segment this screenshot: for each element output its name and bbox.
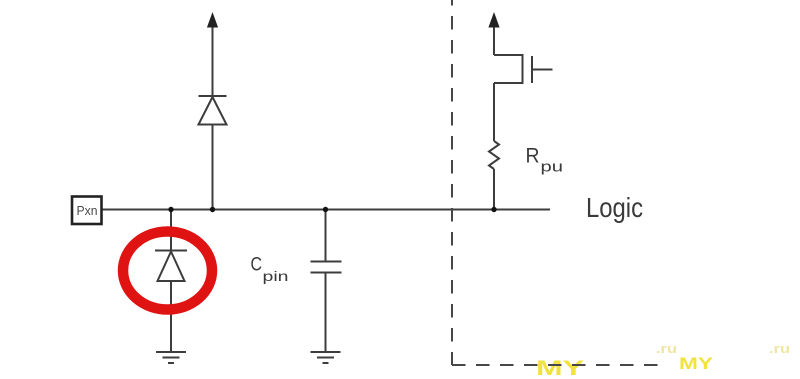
diode D2 cathode bar	[155, 250, 187, 252]
node junction dot C	[323, 207, 328, 212]
diode D1 triangle	[199, 97, 227, 125]
node junction dot A	[168, 207, 173, 212]
resistor Rpu zigzag	[489, 141, 499, 169]
pin box Pxn	[72, 197, 102, 225]
svg-text:pu: pu	[541, 160, 564, 176]
wire capacitor branch upper	[325, 210, 327, 262]
transistor Q1 gate bar	[531, 56, 533, 83]
wire clamp branch upper	[170, 210, 172, 251]
wire diode D1 to node	[212, 125, 214, 210]
transistor Q1 PMOS body path	[494, 55, 523, 83]
label Cpin	[251, 255, 289, 285]
red highlight ellipse	[123, 232, 212, 310]
ground GND1	[156, 352, 186, 363]
wire VCC branch left vertical	[212, 24, 214, 96]
svg-text:pin: pin	[263, 269, 289, 284]
wire clamp branch lower	[170, 281, 172, 352]
wire pull-up branch top vertical	[493, 24, 495, 55]
svg-text:Pxn: Pxn	[77, 203, 98, 218]
diode D1 cathode bar	[199, 95, 227, 97]
svg-text:MY: MY	[536, 357, 584, 379]
diode D2 triangle	[158, 252, 185, 282]
transistor Q1 gate lead	[532, 69, 553, 71]
svg-text:MY: MY	[679, 354, 714, 373]
node junction dot B	[210, 207, 215, 212]
wire resistor to node	[493, 169, 495, 210]
label Rpu	[526, 145, 564, 176]
svg-text:Logic: Logic	[586, 192, 643, 223]
svg-text:C: C	[251, 255, 263, 276]
dashed boundary horizontal	[452, 364, 661, 366]
wire main horizontal net (pin to logic)	[102, 209, 550, 211]
ground GND2	[311, 352, 341, 363]
wire transistor to resistor	[493, 83, 495, 141]
svg-text:R: R	[526, 145, 540, 168]
dashed boundary vertical	[451, 0, 453, 365]
svg-text:.ru: .ru	[656, 341, 677, 356]
wire capacitor branch lower	[325, 273, 327, 353]
arrow VCC right	[488, 12, 499, 28]
arrow VCC left	[207, 12, 218, 28]
svg-text:.ru: .ru	[769, 341, 790, 356]
node junction dot D	[491, 207, 496, 212]
capacitor Cpin plates	[311, 262, 342, 273]
